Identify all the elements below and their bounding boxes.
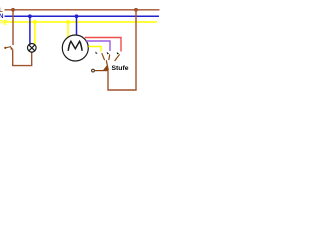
wire PE bus xyxy=(5,21,158,23)
junction N to lamp xyxy=(28,14,32,18)
step switch S2 off-position ring terminal xyxy=(92,69,95,72)
wire yellow motor to step contact 1 xyxy=(88,47,101,52)
junction PE to lamp xyxy=(33,20,37,24)
step switch S2 wiper arm with arrow xyxy=(103,60,109,70)
lamp E1 xyxy=(28,44,37,53)
wire L bus xyxy=(5,9,160,11)
svg-text:PE: PE xyxy=(0,20,8,27)
svg-text:Stufe: Stufe xyxy=(112,65,129,72)
wire N drop to motor xyxy=(76,16,78,35)
wire L drop to switch xyxy=(12,10,14,45)
wire ring to pivot xyxy=(95,70,109,72)
switch Q lamp (single-pole) xyxy=(4,46,13,50)
junction PE to motor xyxy=(66,20,70,24)
wire N drop to lamp xyxy=(29,16,31,45)
wire N bus xyxy=(5,15,160,17)
step switch S2 contact marks xyxy=(96,51,120,54)
junction L to lamp switch xyxy=(11,8,15,12)
wire violet motor to step contact 2 xyxy=(86,41,110,51)
step switch S2 fixed contact strokes xyxy=(102,53,120,61)
wire switch to lamp bottom loop xyxy=(13,49,32,65)
junction N to motor xyxy=(75,14,79,18)
wire PE drop to lamp xyxy=(34,22,36,45)
wire PE drop to motor xyxy=(67,22,69,38)
wire red motor to step contact 3 xyxy=(85,38,121,52)
wire L feed to step switch pivot xyxy=(108,10,136,90)
motor M1 xyxy=(62,35,88,61)
junction L to step switch xyxy=(134,8,138,12)
